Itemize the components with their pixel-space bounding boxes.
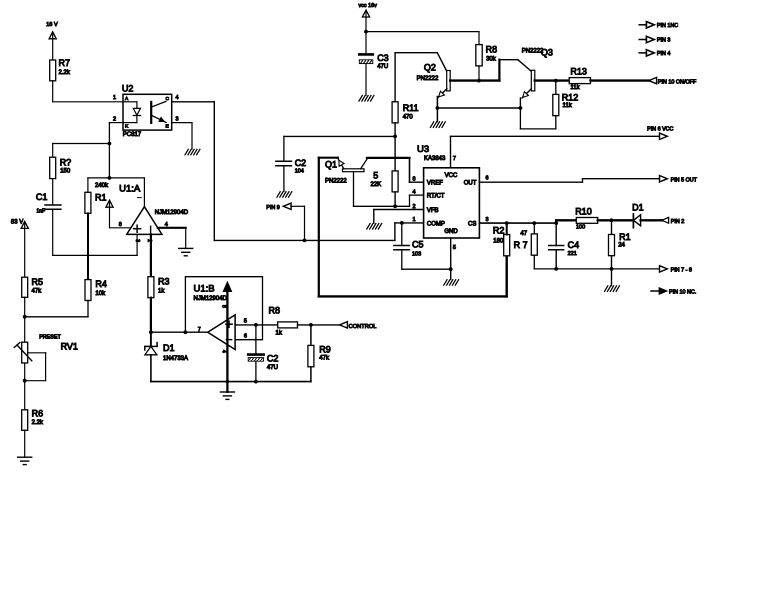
svg-text:RT/CT: RT/CT [427,193,445,199]
svg-text:R4: R4 [95,279,107,289]
svg-text:D1: D1 [632,202,644,212]
svg-text:PN2222: PN2222 [325,179,347,185]
svg-text:Q2: Q2 [424,63,436,73]
svg-text:5: 5 [244,319,247,325]
svg-text:8: 8 [412,177,415,183]
svg-text:PRESET: PRESET [39,335,61,341]
svg-text:R8: R8 [486,45,498,55]
svg-text:PIN 10 ON/OFF: PIN 10 ON/OFF [658,79,697,85]
svg-text:C4: C4 [568,240,580,250]
svg-text:7: 7 [198,327,201,333]
svg-text:R6: R6 [32,409,44,419]
svg-text:Q3: Q3 [541,48,553,58]
svg-text:4: 4 [165,222,168,228]
svg-text:2.2k: 2.2k [32,420,44,426]
svg-text:4: 4 [176,95,179,101]
svg-text:R12: R12 [562,92,579,102]
svg-text:5: 5 [453,245,456,251]
svg-text:PIN 10 NC.: PIN 10 NC. [669,290,696,296]
svg-text:C1: C1 [36,192,48,202]
svg-text:1: 1 [113,95,116,101]
svg-text:C2: C2 [295,158,307,168]
svg-text:4: 4 [412,190,415,196]
svg-text:R8: R8 [269,306,281,316]
svg-text:R3: R3 [158,276,170,286]
svg-text:47k: 47k [32,289,43,295]
svg-text:240k: 240k [95,183,109,189]
svg-text:PIN 7 - 8: PIN 7 - 8 [671,268,692,274]
svg-text:8: 8 [220,305,226,308]
svg-text:47: 47 [520,231,527,237]
svg-text:R10: R10 [575,207,592,217]
svg-text:1nF: 1nF [37,209,46,215]
svg-text:3: 3 [176,117,179,123]
svg-text:PIN 9: PIN 9 [266,205,279,211]
svg-text:vcc 16v: vcc 16v [359,3,378,9]
svg-text:NJM12904D: NJM12904D [155,210,189,216]
svg-text:1: 1 [412,217,415,223]
svg-text:PIN 2: PIN 2 [671,219,684,225]
svg-text:E: E [166,124,169,130]
svg-text:R1: R1 [619,232,631,242]
svg-text:5: 5 [373,170,378,180]
svg-text:104: 104 [295,168,304,174]
svg-text:R1: R1 [95,193,107,203]
svg-text:R2: R2 [493,226,505,236]
svg-text:PIN 4: PIN 4 [657,51,670,57]
svg-text:U1:B: U1:B [194,284,215,295]
svg-text:C5: C5 [412,239,424,249]
svg-text:3: 3 [486,217,489,223]
svg-text:47U: 47U [377,64,388,70]
svg-text:11k: 11k [570,85,580,91]
svg-text:100: 100 [576,224,585,230]
svg-text:C2: C2 [267,354,279,364]
svg-text:VFB: VFB [427,208,439,214]
svg-text:6: 6 [244,334,247,340]
svg-text:Q1: Q1 [325,160,337,170]
svg-text:PIN 5 OUT: PIN 5 OUT [671,177,698,183]
svg-text:R?: R? [60,158,72,168]
svg-text:R9: R9 [319,345,331,355]
svg-text:150: 150 [60,169,71,175]
svg-text:8: 8 [119,222,122,228]
svg-text:30k: 30k [486,56,497,62]
svg-text:PIN 1NC: PIN 1NC [657,23,678,29]
svg-text:1k: 1k [276,330,283,336]
svg-text:RV1: RV1 [61,342,78,352]
svg-text:PN2222: PN2222 [417,76,439,82]
svg-text:7: 7 [453,156,456,162]
svg-text:U3: U3 [417,144,429,155]
svg-text:11k: 11k [563,103,573,109]
svg-text:2.2k: 2.2k [59,70,71,76]
svg-text:R 7: R 7 [514,240,528,250]
svg-text:U2: U2 [122,83,134,93]
svg-text:470: 470 [403,114,414,120]
svg-text:47k: 47k [319,356,330,362]
svg-text:R5: R5 [32,277,44,287]
svg-text:CONTROL: CONTROL [349,324,377,330]
svg-text:6: 6 [486,176,489,182]
svg-text:2: 2 [113,117,116,123]
svg-text:1N4733A: 1N4733A [163,356,188,362]
svg-text:COMP: COMP [427,222,445,228]
svg-text:180: 180 [493,238,504,244]
svg-text:PIN 6 VCC: PIN 6 VCC [647,127,673,133]
svg-text:4: 4 [220,350,226,353]
svg-text:R7: R7 [59,58,71,68]
svg-text:22K: 22K [371,182,382,188]
svg-text:103: 103 [412,251,421,257]
svg-text:U1:A: U1:A [119,183,141,194]
svg-text:16 V: 16 V [46,22,58,28]
svg-text:D1: D1 [163,343,175,353]
svg-text:R11: R11 [403,103,419,113]
svg-text:83 V: 83 V [11,220,23,226]
svg-text:OUT: OUT [464,180,477,186]
svg-text:VCC: VCC [445,173,458,179]
svg-text:CS: CS [468,222,476,228]
svg-text:3: 3 [134,239,140,242]
svg-text:KA3843: KA3843 [424,156,446,162]
svg-text:47U: 47U [267,365,278,371]
svg-text:C3: C3 [377,53,389,63]
svg-text:NJM12904D: NJM12904D [194,296,228,302]
svg-text:VREF: VREF [427,180,443,186]
svg-text:PC817: PC817 [123,132,142,138]
svg-text:GND: GND [444,229,458,235]
svg-text:10k: 10k [95,291,106,297]
svg-text:1k: 1k [158,288,165,294]
svg-text:PIN 3: PIN 3 [657,38,670,44]
svg-text:R13: R13 [570,66,587,76]
svg-text:221: 221 [568,251,577,257]
svg-text:24: 24 [618,242,625,248]
